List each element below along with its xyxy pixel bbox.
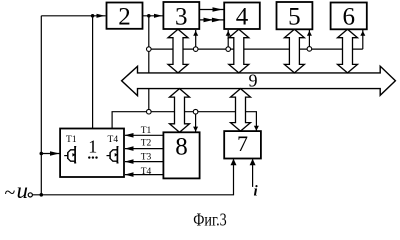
double arrow bus-block5 xyxy=(284,29,304,73)
svg-text:T1: T1 xyxy=(66,135,77,145)
wire: stub up into block 4 bottom xyxy=(227,30,229,49)
svg-text:T1: T1 xyxy=(141,126,152,136)
svg-text:4: 4 xyxy=(236,4,249,31)
arrowhead 3-4 top line xyxy=(213,7,223,12)
small up arrowhead into block 3 bottom xyxy=(193,31,198,36)
double arrow bus-block4 xyxy=(229,29,249,73)
node circle y49 x309.4 xyxy=(307,47,312,52)
arrowheads from block 8 into block 1 (T1..T4) xyxy=(125,133,134,138)
transistor T4 icon xyxy=(107,146,119,163)
junction dot block1 branch xyxy=(40,152,44,156)
svg-text:7: 7 xyxy=(237,131,248,156)
wire: input feed to block 2 (horizontal y=15.8) xyxy=(41,15,105,17)
wire: horizontal control line y=111.7 from block 1 top to block 7 xyxy=(112,112,256,132)
block 5 xyxy=(277,2,313,29)
svg-text:T4: T4 xyxy=(141,167,152,177)
svg-text:~: ~ xyxy=(5,182,16,204)
block 3 xyxy=(163,2,199,29)
wire: elbow up into block 6 bottom xyxy=(362,30,364,49)
junction dot on 2-input wire xyxy=(91,14,95,18)
wire: branch into block 1 left input xyxy=(41,153,59,155)
small up arrowhead into block 4 bottom xyxy=(226,31,231,36)
arrowheads 3-4 bottom line (double) xyxy=(204,18,214,23)
double arrow bus-block7 xyxy=(231,89,251,132)
wire: current input i to block 7 bottom xyxy=(252,159,254,187)
arrowhead into block 1 left xyxy=(50,151,60,156)
node circle y111.7 x148.8 xyxy=(147,109,152,114)
svg-text:T3: T3 xyxy=(141,153,152,163)
wire: horizontal distribution line y=49.1 to blocks 3,4,5,6 xyxy=(149,48,363,50)
block 2 xyxy=(107,3,143,29)
wire: stub down into block 8 top xyxy=(195,112,197,132)
svg-text:1: 1 xyxy=(88,137,97,157)
wire: bottom rail from ~u terminal to block 7 bottom input xyxy=(32,159,233,195)
double arrow bus-block8 xyxy=(170,89,190,133)
svg-text:u: u xyxy=(17,178,29,203)
arrowhead into block 3 xyxy=(154,14,162,18)
block 4 xyxy=(224,3,260,30)
wire: vertical x=92.6 from top wire down to block 1 top xyxy=(92,16,94,129)
svg-text:8: 8 xyxy=(175,134,188,161)
svg-text:T2: T2 xyxy=(141,139,152,149)
block 7 (sensor) xyxy=(224,131,261,158)
svg-text:5: 5 xyxy=(288,4,301,31)
svg-text:6: 6 xyxy=(342,4,355,31)
double arrow bus-block6 xyxy=(338,29,358,73)
junction dot on 2-3 wire xyxy=(147,14,151,18)
block 6 xyxy=(331,3,367,30)
small down arrowhead into block 7 top xyxy=(254,126,259,131)
block 1 (inverter with transistors) xyxy=(60,129,124,178)
node circle y49 x195.7 xyxy=(193,47,198,52)
bus 9 (horizontal double arrow) xyxy=(122,66,396,95)
node circle y49 x228.2 xyxy=(226,47,231,52)
up arrowhead into block 7 bottom right (i input) xyxy=(250,159,256,166)
wire: vertical x=148.8 from 2-3 wire down through y=49 wire to y=111.7 wire xyxy=(148,16,150,112)
svg-text:T4: T4 xyxy=(108,135,119,145)
wires block3 to block4 (two lines) xyxy=(199,10,223,20)
svg-text:9: 9 xyxy=(249,71,258,91)
small down arrowhead into block 8 top xyxy=(193,127,198,132)
node circle y49 x148.8 xyxy=(147,47,152,52)
junction dot bottom rail xyxy=(40,193,44,197)
wire: left vertical rail x=41.3 from top wire to bottom rail xyxy=(40,16,42,195)
svg-text:2: 2 xyxy=(118,4,131,31)
svg-text:3: 3 xyxy=(175,4,188,31)
transistor T1 icon xyxy=(64,146,76,163)
double arrow bus-block3 xyxy=(168,29,188,73)
wire: stub up into block 3 bottom xyxy=(195,30,197,49)
up arrowhead into block 7 bottom left xyxy=(231,159,237,166)
small up arrowhead into block 6 bottom xyxy=(360,31,365,36)
block 8 (driver) xyxy=(163,132,199,178)
wire: stub up into block 5 bottom xyxy=(308,30,310,49)
wire: block 2 output to block 3 xyxy=(143,15,163,17)
terminal ~u xyxy=(28,193,32,197)
svg-text:Фиг.3: Фиг.3 xyxy=(193,210,227,230)
arrowhead into block 2 xyxy=(97,14,105,18)
wire: lines from block 8 to block 1 (T1..T4 drives) xyxy=(125,135,163,174)
node circle y111.7 x195.6 xyxy=(193,109,198,114)
small up arrowhead into block 5 bottom xyxy=(307,31,312,36)
